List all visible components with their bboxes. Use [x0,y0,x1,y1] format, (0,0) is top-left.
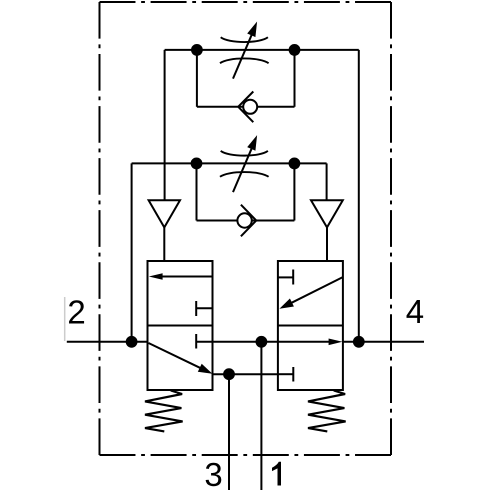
V2 bottom position blocked port T [292,367,294,382]
node: FC1 left junction [191,44,203,56]
wire: line between valve bodies (port 1 branch) [213,341,278,343]
V1 top position flow arrow [160,276,213,278]
V2 top position diagonal flow arrow [291,277,343,303]
node: FC1 right junction [289,44,301,56]
wire: FC1 right drop to port 4 node [358,50,360,342]
wire: FC2 left drop to port 2 node [131,163,133,341]
wire: exhaust line between valves (port 3 branch) [213,373,278,375]
V1 top position blocked port T [195,301,197,316]
wire: FC2 right drop to pilot triangle [326,163,328,200]
enclosure dash-dot frame left [99,2,101,455]
wire: flow control FC1 top line [165,49,359,51]
V1 bottom position diagonal flow arrow [149,343,202,368]
valve V1 (left 3/2 valve) body [148,261,213,390]
node: FC2 right junction [289,158,301,170]
wire: FC1 left drop to pilot triangle [164,50,166,200]
enclosure dash-dot frame top [100,1,392,3]
wire: port 1 down line [260,342,262,490]
label port 1 [272,462,281,486]
svg-text:4: 4 [406,293,424,330]
wire: port 4 line [343,341,424,343]
wire: FC1 loop right side [294,50,296,107]
wire: FC2 loop right side [293,163,295,220]
wire: port 3 down line [228,374,230,490]
node: port 2 junction [126,336,138,348]
wire: port 2 line [67,341,148,343]
pilot triangle left [149,200,180,227]
wire: FC1 loop left side [196,50,198,107]
svg-text:2: 2 [67,294,85,331]
wire: FC2 loop left side [196,163,198,220]
pilot triangle right [311,200,343,227]
wire: FC1 bypass branch [197,106,295,108]
faint guide mark left of port 2 [64,297,66,341]
throttle (variable restrictor) of FC2 [220,135,269,192]
check valve of FC2 [237,205,256,237]
throttle (variable restrictor) of FC1 [220,22,269,79]
node: FC2 left junction [191,158,203,170]
wire: right pilot line [326,227,328,261]
svg-text:3: 3 [204,456,222,490]
wire: left pilot line [163,227,165,261]
wire: flow control FC2 top line [132,162,327,164]
V2 bottom position flow arrow [278,341,331,343]
V1 bottom position blocked port T [195,334,197,349]
node: port 1 junction [256,336,268,348]
V2 top position blocked port T [292,270,294,285]
enclosure dash-dot frame bottom [100,454,392,456]
node: port 4 junction [353,336,365,348]
enclosure dash-dot frame right [390,2,392,455]
spring of valve V2 [308,391,346,432]
valve V2 (right 3/2 valve) body [278,261,343,390]
wire: FC2 bypass branch [197,220,295,222]
spring of valve V1 [145,391,183,432]
check valve of FC1 [238,92,257,123]
node: port 3 junction [223,368,235,380]
